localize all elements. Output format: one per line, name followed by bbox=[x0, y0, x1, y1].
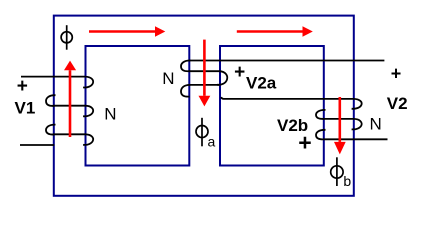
svg-text:V2a: V2a bbox=[246, 74, 277, 93]
svg-text:N: N bbox=[370, 115, 382, 134]
svg-text:+: + bbox=[234, 62, 245, 83]
current/flux arrow in left leg (up) bbox=[64, 61, 76, 137]
flux arrow phi-a (center leg, down) bbox=[199, 40, 211, 107]
flux label phi-a bbox=[196, 118, 208, 147]
svg-text:+: + bbox=[391, 63, 402, 83]
core window 2 bbox=[220, 46, 324, 166]
svg-text:+: + bbox=[17, 76, 28, 97]
svg-text:N: N bbox=[162, 69, 174, 88]
winding V2b (right leg) bbox=[316, 99, 388, 139]
svg-text:b: b bbox=[343, 173, 351, 189]
svg-text:V2: V2 bbox=[387, 94, 408, 113]
svg-text:+: + bbox=[298, 129, 311, 155]
svg-text:a: a bbox=[208, 133, 216, 149]
svg-text:N: N bbox=[104, 105, 116, 124]
winding V2a (center leg) bbox=[181, 60, 384, 98]
flux arrow phi-b (right leg, down) bbox=[334, 97, 346, 154]
flux arrow top-right bbox=[237, 26, 313, 37]
flux label phi (top left) bbox=[61, 25, 72, 50]
winding V1 (left leg) bbox=[20, 77, 93, 145]
flux label phi-b bbox=[331, 157, 343, 186]
core outer boundary bbox=[54, 16, 354, 196]
core window 1 bbox=[86, 46, 190, 166]
flux arrow top-left (phi direction) bbox=[89, 26, 165, 37]
svg-text:V1: V1 bbox=[15, 99, 36, 118]
